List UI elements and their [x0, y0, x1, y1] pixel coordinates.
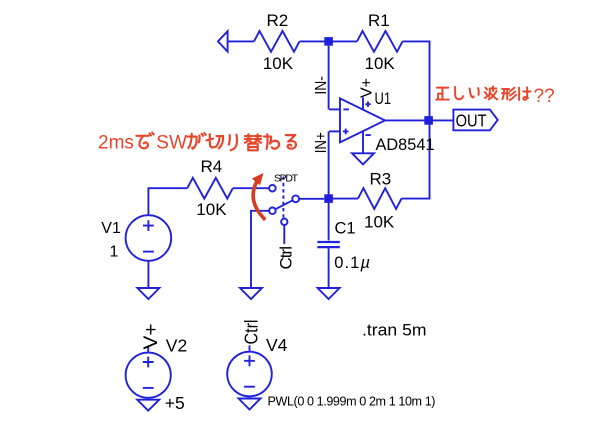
op-amp minus sign (inverting input) [343, 108, 349, 110]
svg-text:R2: R2 [267, 11, 289, 30]
svg-text:+5: +5 [165, 393, 185, 413]
switch SW common terminal [292, 195, 299, 202]
capacitor C1 [317, 242, 339, 247]
svg-text:V4: V4 [266, 335, 288, 355]
glyph sei [436, 88, 449, 100]
label C1 [335, 219, 356, 237]
wire: feedback node up to IN+ pin [328, 131, 330, 198]
svg-text:10K: 10K [365, 54, 396, 73]
svg-text:AD8541: AD8541 [376, 136, 435, 154]
value 10K (R1) [365, 54, 396, 73]
glyph ru [286, 135, 296, 149]
switch SW arm [275, 200, 292, 209]
voltage source V4 [227, 352, 272, 397]
label R3 [370, 169, 392, 188]
wire: V4 top stub to Ctrl label [249, 345, 251, 351]
resistor R1 [357, 31, 403, 52]
op-amp U1 triangle [340, 98, 385, 142]
ground (below V2) [137, 398, 159, 411]
op-amp non-inverting input pin stub [329, 130, 340, 132]
glyph nami [485, 86, 497, 99]
svg-text:IN+: IN+ [313, 132, 330, 153]
label R2 [267, 11, 289, 30]
svg-text:Ctrl: Ctrl [241, 320, 261, 345]
svg-text:SPDT: SPDT [274, 172, 299, 184]
op-amp inverting input pin stub [329, 108, 340, 110]
op-amp plus sign (non-inverting input) [343, 129, 349, 135]
wire: C1 to ground [328, 248, 330, 288]
wire: input arrow to R2 [228, 40, 254, 42]
label U1 [375, 90, 392, 108]
label R4 [201, 157, 223, 176]
voltage source V1 [126, 215, 172, 261]
value 10K (R3) [364, 213, 395, 232]
glyph kiri [206, 134, 223, 148]
op-amp minus sign (negative supply) [365, 134, 370, 136]
svg-text:U1: U1 [375, 90, 392, 108]
glyph kae [245, 134, 261, 150]
glyph ha [519, 87, 530, 100]
svg-text:R4: R4 [201, 157, 223, 176]
svg-text:??: ?? [534, 86, 555, 107]
op-amp positive supply pin stub [362, 97, 364, 109]
switch SW throw 1 terminal [269, 185, 276, 192]
net label IN+ [313, 132, 330, 153]
wire: R1 to right rail down to output [403, 41, 430, 120]
value 0.1u (C1) [334, 254, 371, 272]
wire: switch common to feedback node [299, 198, 324, 200]
svg-text:V1: V1 [101, 220, 121, 237]
annotation text ?? (red) [534, 86, 555, 107]
label V2 [166, 335, 187, 355]
op-amp negative supply pin stub [362, 131, 364, 153]
net label Ctrl (V4) [241, 320, 261, 345]
value PWL (V4) [268, 394, 436, 408]
glyph i [470, 88, 479, 97]
svg-text:2ms: 2ms [98, 133, 134, 154]
svg-text:V+: V+ [141, 324, 162, 350]
glyph katachi [502, 88, 516, 100]
annotation text: correct waveform?? (red japanese) drawn as paths [436, 86, 530, 100]
svg-text:R1: R1 [368, 11, 390, 30]
resistor R3 [358, 188, 402, 209]
glyph shi [455, 87, 463, 99]
value 10K (R4) [196, 200, 227, 219]
value +5 (V2) [165, 393, 185, 413]
resistor R4 [187, 178, 233, 199]
glyph de [136, 133, 153, 149]
label OUT (port text) [456, 111, 487, 131]
label SPDT (switch) [274, 172, 299, 184]
net label V+ (V2) [141, 324, 162, 350]
label V1 [101, 220, 121, 237]
wire: output node to OUT flag [430, 119, 454, 121]
spice directive .tran 5m [362, 321, 427, 340]
svg-text:10K: 10K [263, 54, 294, 73]
junction (feedback node: switch/R3/C1/IN+) [324, 194, 333, 203]
wire: V1 top up and right to R4 [148, 188, 187, 215]
label V4 [266, 335, 288, 355]
wire: V1 bottom to ground [147, 261, 149, 288]
voltage source V2 [126, 353, 171, 398]
ground (op-amp negative supply) [352, 153, 374, 164]
net label IN- [313, 76, 330, 95]
svg-text:OUT: OUT [456, 111, 487, 131]
svg-text:C1: C1 [335, 219, 356, 237]
glyph wa [264, 134, 279, 149]
svg-text:10K: 10K [196, 200, 227, 219]
wire: vertical from top junction down to IN- pin [328, 46, 330, 110]
wire: R4 to switch throw 1 [233, 187, 269, 189]
annotation glyphs (red japanese) drawn as paths [136, 133, 296, 151]
wire: feedback node down to C1 [328, 199, 330, 241]
switch SW control dashed line [282, 177, 284, 219]
value 10K (R2) [263, 54, 294, 73]
ground (below switch throw 2) [240, 288, 262, 299]
net label V+ (op-amp supply) [358, 78, 375, 98]
label R1 [368, 11, 390, 30]
net label Ctrl (switch control) [276, 246, 295, 270]
svg-text:10K: 10K [364, 213, 395, 232]
svg-text:IN-: IN- [313, 76, 330, 95]
svg-text:R3: R3 [370, 169, 392, 188]
junction (output node) [424, 116, 433, 125]
ground (below V4) [239, 396, 261, 409]
svg-text:V+: V+ [358, 78, 375, 98]
wire: R2 to node IN- top junction [300, 40, 329, 42]
switch SW control terminal [281, 219, 287, 225]
op-amp plus sign (positive supply) [365, 102, 370, 107]
svg-text:SW: SW [156, 133, 187, 154]
annotation text: 2ms de SW switches (red latin part) [98, 133, 134, 154]
ground (below V1) [137, 288, 159, 299]
svg-text:Ctrl: Ctrl [276, 246, 295, 270]
svg-text:1: 1 [110, 243, 119, 260]
value AD8541 (U1) [376, 136, 435, 154]
wire: right rail output node down to R3 [402, 120, 430, 198]
junction (R2/R1/IN- node) [324, 37, 333, 46]
OUT port flag [453, 110, 497, 131]
switch SW throw 2 terminal [269, 208, 276, 215]
wire: junction to R1 [329, 40, 357, 42]
glyph ga [187, 133, 205, 149]
value 1 (V1) [110, 243, 119, 260]
wire: control terminal to Ctrl label [283, 225, 285, 244]
wire: V2 top stub to V+ label [147, 346, 149, 352]
svg-text:V2: V2 [166, 335, 187, 355]
wire: switch throw 2 left and down to ground [251, 211, 269, 288]
svg-text:PWL(0 0 1.999m 0 2m 1 10m 1): PWL(0 0 1.999m 0 2m 1 10m 1) [268, 394, 436, 408]
wire: op-amp output to right rail [385, 119, 430, 121]
input port arrow flag [218, 31, 228, 51]
red annotation arrow (switch toggles) [252, 173, 265, 220]
svg-text:0.1µ: 0.1µ [334, 254, 371, 272]
svg-text:.tran 5m: .tran 5m [362, 321, 427, 340]
ground (below C1) [318, 288, 340, 299]
glyph ri [229, 135, 237, 151]
wire: R3 to feedback node [329, 198, 358, 200]
resistor R2 [254, 31, 300, 52]
